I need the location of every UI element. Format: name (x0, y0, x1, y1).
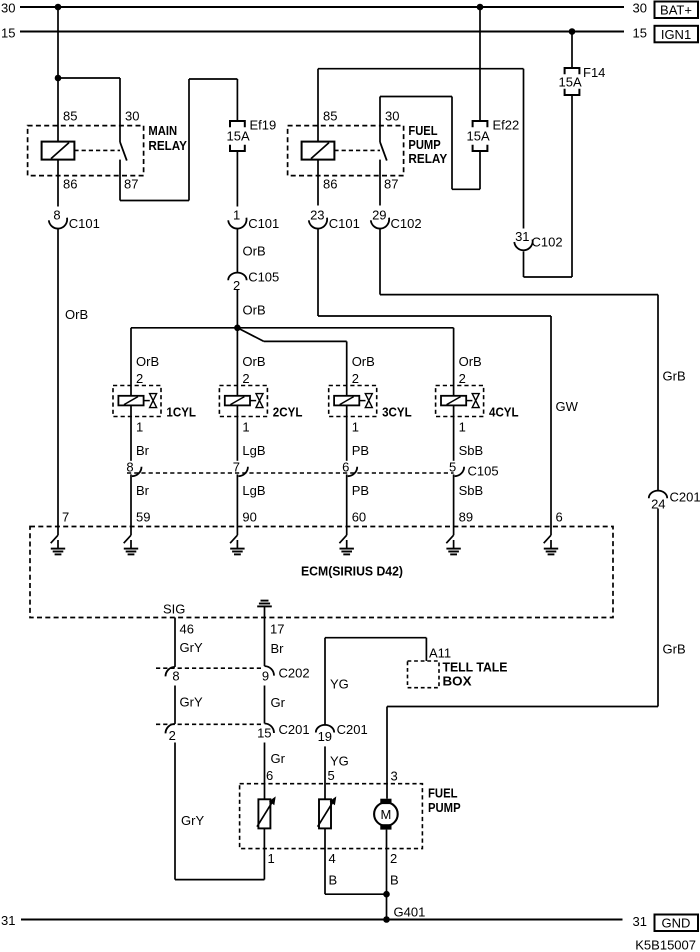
svg-text:31: 31 (1, 913, 15, 928)
wire PB 3CYL to C105-6 (346, 405, 348, 460)
wire GW C101-23 to ECM pin 6 (317, 230, 319, 317)
wire Ef19 to C101 pin 1 (236, 151, 238, 207)
svg-text:OrB: OrB (243, 303, 266, 318)
svg-text:86: 86 (63, 177, 77, 192)
svg-text:29: 29 (372, 208, 386, 223)
injector 1CYL valve link (144, 400, 150, 402)
relay MAIN RELAY dashed housing (28, 126, 144, 176)
connector C105 pin 7 (238, 467, 248, 477)
injector 3CYL valve link (359, 400, 365, 402)
connector C102 pin 29 (371, 218, 389, 229)
relay FUEL PUMP RELAY switch contact blade (380, 142, 387, 161)
injector 3CYL dashed housing (329, 386, 377, 417)
wire fuel pump relay 87 down to C102-29 (379, 160, 381, 206)
svg-text:2: 2 (390, 851, 397, 866)
wire PB C105 to ECM pin 60 (346, 474, 348, 526)
fuse Ef19 15A (230, 121, 245, 127)
svg-text:15: 15 (633, 25, 647, 40)
svg-text:2CYL: 2CYL (273, 405, 303, 420)
svg-text:OrB: OrB (65, 307, 88, 322)
svg-text:ECM(SIRIUS D42): ECM(SIRIUS D42) (301, 564, 403, 579)
svg-text:GrY: GrY (180, 695, 203, 710)
svg-text:1CYL: 1CYL (166, 405, 196, 420)
svg-text:15: 15 (257, 725, 271, 740)
wire B fuel pump pin 2 to G401 (386, 830, 388, 920)
svg-text:3: 3 (391, 769, 398, 784)
injector 4CYL dashed housing (436, 386, 484, 417)
injector 1CYL valve symbol (150, 394, 157, 401)
connector C102 pin 31 (514, 239, 532, 250)
sender resistor fuel pump pin5/pin4 (319, 799, 331, 828)
connector C105 pin 5 (455, 467, 465, 477)
svg-text:87: 87 (384, 177, 398, 192)
injector 2CYL dashed housing (219, 386, 267, 417)
svg-text:C201: C201 (670, 490, 700, 505)
wire branch to main relay contact pin 30 (58, 77, 120, 79)
injector 3CYL valve symbol (365, 394, 372, 401)
svg-text:C105: C105 (248, 270, 279, 285)
svg-text:59: 59 (136, 510, 150, 525)
wire YG C201-19 to fuel pump pin 5 (324, 746, 326, 799)
svg-text:30: 30 (125, 109, 139, 124)
fuse F14 15A (565, 68, 580, 74)
svg-text:Ef19: Ef19 (250, 118, 277, 133)
wire bus 15 (IGN1) (20, 31, 624, 33)
svg-text:OrB: OrB (459, 354, 482, 369)
relay MAIN RELAY switch contact blade (120, 142, 127, 161)
connector C201 pin 19 (316, 725, 334, 733)
ground ECM pin 89 (453, 527, 455, 536)
svg-text:OrB: OrB (352, 354, 375, 369)
svg-text:90: 90 (242, 510, 256, 525)
svg-text:Gr: Gr (271, 695, 286, 710)
wire Gr C202-9 to C201-15 (264, 686, 266, 724)
ground ECM pin 60 (346, 527, 348, 536)
svg-text:1: 1 (268, 851, 275, 866)
svg-text:B: B (390, 873, 399, 888)
wire SbB 4CYL to C105-5 (453, 405, 455, 460)
svg-text:PB: PB (352, 483, 369, 498)
svg-text:GrY: GrY (181, 813, 204, 828)
svg-text:1: 1 (242, 420, 249, 435)
svg-text:15A: 15A (559, 75, 582, 90)
ground ECM pin 90 (236, 527, 238, 536)
svg-text:G401: G401 (394, 905, 426, 920)
connector row C105 dashed line (127, 472, 454, 474)
svg-text:SbB: SbB (459, 483, 484, 498)
junction bus15 / F14 feed (569, 28, 576, 35)
svg-text:RELAY: RELAY (408, 151, 447, 166)
svg-text:B: B (329, 873, 338, 888)
ground ECM internal earth to pin 17 (261, 600, 269, 602)
connector row C201 dashed line (156, 723, 264, 725)
wire to fuel pump relay coil pin 85 (317, 69, 319, 142)
connector C105 pin 2 (228, 273, 246, 281)
connector C201 pin 15 (265, 724, 275, 734)
svg-text:Br: Br (136, 443, 150, 458)
svg-text:PB: PB (352, 443, 369, 458)
wire YG tell tale box to C201-19 (324, 638, 326, 726)
svg-text:1: 1 (459, 420, 466, 435)
svg-text:C201: C201 (279, 722, 310, 737)
svg-text:M: M (380, 807, 391, 822)
svg-text:YG: YG (330, 754, 349, 769)
wire bus30 down to main relay coil pin 85 (57, 7, 59, 142)
connector C201 pin 2 (166, 724, 176, 734)
svg-text:17: 17 (270, 622, 284, 637)
svg-text:C105: C105 (468, 464, 499, 479)
relay MAIN RELAY coil (42, 142, 75, 160)
svg-text:RELAY: RELAY (148, 138, 187, 153)
svg-text:19: 19 (318, 729, 332, 744)
svg-text:2: 2 (352, 371, 359, 386)
svg-text:C101: C101 (329, 216, 360, 231)
wire GrY ECM pin 46 (SIG) down to C202-8 (174, 618, 176, 667)
wire feed drop to 3CYL (346, 341, 348, 395)
relay FUEL PUMP RELAY coil (302, 142, 335, 160)
svg-text:PUMP: PUMP (428, 800, 461, 815)
GND box (655, 915, 699, 932)
injector 4CYL valve link (466, 400, 472, 402)
svg-text:PUMP: PUMP (408, 137, 441, 152)
wire main relay 87 to fuse Ef19 (119, 160, 121, 201)
motor M fuel pump (380, 799, 391, 804)
svg-text:GrY: GrY (180, 640, 203, 655)
connector row C202 dashed line (156, 667, 264, 669)
wire Ef22 to fuel pump relay contact pin 30 (479, 151, 481, 189)
svg-text:85: 85 (323, 109, 337, 124)
svg-text:OrB: OrB (136, 354, 159, 369)
svg-text:46: 46 (180, 622, 194, 637)
IGN1 box (655, 26, 699, 43)
svg-text:31: 31 (633, 914, 647, 929)
svg-text:LgB: LgB (242, 483, 265, 498)
svg-text:4CYL: 4CYL (489, 405, 519, 420)
svg-text:30: 30 (385, 109, 399, 124)
svg-text:15A: 15A (227, 129, 250, 144)
relay FUEL PUMP RELAY dashed housing (288, 126, 404, 176)
wire Gr C201-15 to fuel pump pin 6 (264, 743, 266, 800)
junction bus30 / main relay feed (55, 4, 62, 11)
injector 4CYL solenoid coil (441, 396, 466, 406)
svg-text:GW: GW (556, 399, 579, 414)
ground ECM pin 6 (550, 527, 552, 536)
wire LgB 2CYL to C105-7 (236, 405, 238, 460)
connector C105 pin 8 (132, 467, 142, 477)
svg-text:C201: C201 (337, 722, 368, 737)
svg-text:6: 6 (556, 510, 563, 525)
wire GrY C201-2 to fuel pump pin 1 (174, 743, 176, 880)
connector C202 pin 8 (166, 667, 176, 677)
svg-text:Gr: Gr (271, 751, 286, 766)
wire feed drop to 1CYL (130, 328, 132, 396)
wire OrB C105-2 to injector feed node (236, 290, 238, 328)
svg-text:GND: GND (662, 916, 691, 931)
svg-text:Ef22: Ef22 (493, 118, 520, 133)
wire diagonal branch to 3CYL (237, 328, 263, 342)
svg-text:K5B15007: K5B15007 (635, 938, 696, 952)
svg-text:87: 87 (124, 177, 138, 192)
svg-text:1: 1 (233, 208, 240, 223)
fuel pump dashed box (240, 784, 423, 849)
wire fuel pump relay 85 to C102-31 (318, 68, 524, 70)
wire feed drop to 2CYL (236, 328, 238, 396)
wire B fuel pump pin 4 to ground node (324, 828, 326, 894)
svg-text:TELL TALE: TELL TALE (443, 660, 508, 675)
tell tale box A11 (408, 661, 440, 688)
connector C101 pin 8 (49, 218, 67, 229)
svg-text:A11: A11 (429, 646, 451, 661)
wire bus15 down to F14 (571, 32, 573, 69)
wire GrB C201-24 to fuel pump pin 3 (657, 509, 659, 707)
wire main relay 86 down to C101-8 (57, 160, 59, 207)
svg-text:FUEL: FUEL (428, 786, 458, 801)
svg-text:IGN1: IGN1 (661, 27, 691, 42)
svg-text:MAIN: MAIN (148, 123, 177, 138)
BAT+ box (655, 2, 699, 19)
svg-text:8: 8 (53, 208, 60, 223)
svg-text:6: 6 (266, 768, 273, 783)
svg-text:2: 2 (459, 371, 466, 386)
injector 4CYL valve symbol (472, 394, 479, 401)
injector 1CYL solenoid coil (118, 396, 143, 406)
sender resistor fuel pump pin6/pin1 (258, 799, 270, 828)
connector C202 pin 9 (265, 666, 275, 676)
svg-text:YG: YG (330, 677, 349, 692)
svg-text:BAT+: BAT+ (660, 3, 692, 18)
wire Br C105 to ECM pin 59 (130, 474, 132, 526)
junction injector feed node (234, 325, 241, 332)
svg-text:GrB: GrB (663, 369, 686, 384)
wire bus 30 (BAT+) (20, 6, 624, 8)
svg-text:SbB: SbB (459, 443, 484, 458)
svg-text:1: 1 (352, 420, 359, 435)
svg-text:Br: Br (136, 483, 150, 498)
svg-text:C101: C101 (69, 216, 100, 231)
svg-text:GrB: GrB (663, 642, 686, 657)
svg-text:89: 89 (459, 510, 473, 525)
svg-text:86: 86 (323, 177, 337, 192)
wire OrB C101-1 to C105-2 (236, 230, 238, 274)
svg-text:30: 30 (1, 1, 15, 16)
relay FUEL PUMP RELAY coil-to-contact dashed link (334, 149, 380, 151)
connector C105 pin 6 (348, 467, 358, 477)
wire Br 1CYL to C105-8 (130, 405, 132, 460)
svg-text:1: 1 (136, 420, 143, 435)
junction pump ground join (383, 891, 390, 898)
wire resistor bottom to fuel pump pin 1 exit (263, 828, 265, 848)
svg-text:OrB: OrB (243, 244, 266, 259)
svg-text:8: 8 (172, 669, 179, 684)
injector 2CYL solenoid coil (225, 396, 250, 406)
ground ECM pin 59 (130, 527, 132, 536)
svg-text:5: 5 (328, 768, 335, 783)
svg-text:3CYL: 3CYL (382, 405, 412, 420)
svg-text:C102: C102 (532, 235, 563, 250)
injector 2CYL valve symbol (256, 394, 263, 401)
node G401 (383, 916, 390, 923)
svg-text:F14: F14 (583, 65, 605, 80)
wire bus30 down to Ef22 (479, 7, 481, 121)
ECM(SIRIUS D42) dashed box (30, 527, 613, 618)
svg-text:SIG: SIG (163, 602, 185, 617)
svg-text:C202: C202 (279, 666, 310, 681)
svg-text:15A: 15A (467, 129, 490, 144)
wire bus 31 (GND) (21, 919, 623, 921)
injector 2CYL valve link (250, 400, 256, 402)
junction main relay coil/contact branch (55, 75, 62, 82)
svg-text:LgB: LgB (242, 443, 265, 458)
svg-text:23: 23 (310, 208, 324, 223)
svg-text:FUEL: FUEL (408, 123, 437, 138)
svg-text:C102: C102 (391, 216, 422, 231)
svg-text:C101: C101 (248, 216, 279, 231)
relay MAIN RELAY coil-to-contact dashed link (74, 149, 120, 151)
svg-text:30: 30 (633, 1, 647, 16)
svg-text:31: 31 (515, 229, 529, 244)
ground ECM pin 7 (57, 527, 59, 536)
wire OrB C101-8 to ECM pin 7 (57, 230, 59, 527)
connector C101 pin 23 (309, 218, 327, 229)
injector 3CYL solenoid coil (334, 396, 359, 406)
wire feed drop to 4CYL (453, 328, 455, 396)
fuse Ef22 15A (473, 121, 488, 127)
svg-text:2: 2 (242, 371, 249, 386)
wire feed rail to 1CYL and 4CYL (131, 327, 454, 329)
injector 1CYL dashed housing (113, 386, 161, 417)
connector C201 pin 24 (649, 491, 667, 499)
wire GrB C102-29 to C201-24 (379, 230, 381, 295)
svg-text:60: 60 (352, 510, 366, 525)
connector C101 pin 1 (228, 218, 246, 229)
wire fuel pump relay 86 down to C101-23 (317, 160, 319, 206)
svg-text:15: 15 (1, 25, 15, 40)
svg-text:2: 2 (136, 371, 143, 386)
wire GrY C202-8 to C201-2 (174, 686, 176, 724)
wire SbB C105 to ECM pin 89 (453, 474, 455, 526)
wire LgB C105 to ECM pin 90 (236, 474, 238, 526)
junction bus30 / Ef22 feed (477, 4, 484, 11)
svg-text:2: 2 (169, 728, 176, 743)
svg-text:OrB: OrB (242, 354, 265, 369)
svg-text:Br: Br (271, 641, 285, 656)
svg-text:7: 7 (62, 510, 69, 525)
svg-text:85: 85 (63, 109, 77, 124)
wire Br ECM pin 17 down to C202-9 (264, 618, 266, 667)
svg-text:BOX: BOX (443, 674, 472, 689)
wire C102-31 to fuse F14 (523, 251, 525, 277)
svg-text:4: 4 (329, 851, 336, 866)
svg-text:9: 9 (262, 669, 269, 684)
